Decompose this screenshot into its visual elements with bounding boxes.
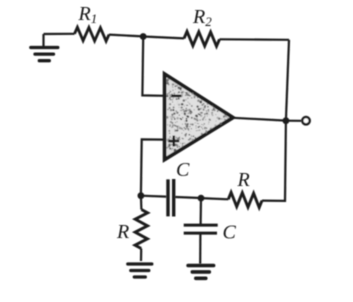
op-amp U1 triangle with speckle fill (165, 74, 233, 160)
wire node D down to capacitor C2 (200, 198, 203, 224)
wire C2 to ground (199, 235, 201, 264)
wire node D to R3 (201, 198, 228, 199)
wire node B to output terminal (286, 120, 301, 122)
wire ground to R1 (44, 33, 75, 35)
resistor R1 (75, 27, 110, 41)
svg-text:R: R (116, 221, 129, 243)
resistor R4 (vertical R below node C) (135, 196, 148, 261)
node A junction dot (140, 33, 147, 40)
wire R1 to node A (109, 35, 143, 37)
label C2 (223, 222, 237, 244)
node B output junction dot (283, 117, 290, 124)
resistor R2 (184, 32, 220, 47)
svg-text:C: C (176, 159, 190, 181)
label R2 (192, 6, 212, 29)
svg-text:R: R (237, 169, 250, 191)
node D junction dot (198, 195, 205, 202)
svg-text:C: C (223, 222, 237, 244)
wire R3 to bottom-right corner and up to output node (262, 121, 286, 201)
resistor R3 (bottom horizontal R) (228, 192, 262, 207)
wire C1 to node D (176, 197, 202, 198)
wire node A down to inverting input (142, 37, 166, 96)
wire R2 to top-right corner (220, 38, 290, 41)
capacitor C2 (shunt, horizontal plates) (184, 225, 218, 233)
node C junction dot (138, 192, 145, 199)
wire op-amp output to node B (233, 118, 286, 121)
wire non-inverting input left and down to node C (141, 139, 166, 195)
wire right vertical (corner down to output node) (286, 40, 289, 121)
ground (top-left) (31, 34, 58, 61)
ground (below R4) (128, 264, 152, 277)
label C1 (176, 159, 190, 181)
op-amp plus sign (168, 136, 179, 147)
ground (below C2) (188, 266, 214, 279)
output terminal (open circle) (302, 117, 309, 124)
op-amp minus sign (171, 95, 181, 98)
capacitor C1 (series, vertical plates) (168, 179, 174, 217)
label R3 (237, 169, 250, 191)
label R4 (116, 221, 129, 243)
wire node C to capacitor C1 (141, 195, 166, 198)
wire node A to R2 (143, 37, 184, 39)
label R1 (78, 3, 98, 26)
